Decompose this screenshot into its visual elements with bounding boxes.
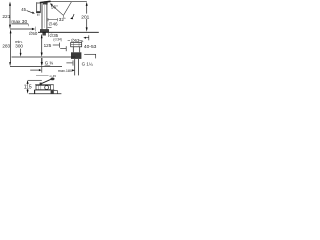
spout vertical left xyxy=(36,2,38,13)
arrow down 201 xyxy=(86,27,88,31)
dim line 201 vertical xyxy=(86,5,88,27)
svg-text:G 1¼: G 1¼ xyxy=(82,62,93,67)
arc arrowhead near 56 xyxy=(50,3,53,6)
lever handle xyxy=(40,1,51,2)
spout arm top xyxy=(37,2,44,4)
deck thickness dim xyxy=(84,37,89,39)
svg-text:56°: 56° xyxy=(51,4,58,9)
rod knob xyxy=(51,78,55,81)
arrow down 115 xyxy=(27,90,29,94)
waste body box xyxy=(36,85,50,89)
125 end tick xyxy=(53,44,60,46)
top extension line xyxy=(44,1,87,3)
body left edge xyxy=(41,4,43,29)
hose vertical dim upper xyxy=(41,35,43,54)
lever lowered diagonal xyxy=(51,4,64,15)
drain mid pipe xyxy=(72,47,74,53)
svg-text:40-53: 40-53 xyxy=(84,44,97,50)
svg-text:G ⅜: G ⅜ xyxy=(45,61,54,66)
max180 right arrow xyxy=(72,69,73,71)
max180 left arrow xyxy=(30,69,39,71)
shank stub below deck xyxy=(42,33,46,36)
lever raised diagonal xyxy=(64,2,72,15)
bottom long line xyxy=(29,93,62,95)
min300 arrow to hose line xyxy=(20,49,22,54)
waste left leg xyxy=(34,90,36,94)
arrow down 221 xyxy=(9,25,11,30)
waste mid line xyxy=(34,89,54,91)
svg-text:300: 300 xyxy=(15,44,23,49)
body inner line xyxy=(44,5,46,28)
arrow up 115 xyxy=(27,80,29,84)
svg-text:125: 125 xyxy=(44,43,52,48)
label hole diameter 35 xyxy=(47,33,49,37)
waste top line xyxy=(35,84,53,86)
svg-text:(∅34): (∅34) xyxy=(53,37,61,41)
flange leader xyxy=(60,48,66,50)
waste right block xyxy=(51,90,54,93)
svg-text:∅50: ∅50 xyxy=(29,31,38,36)
bottom view extension line xyxy=(28,79,42,81)
bottom reference line xyxy=(10,66,62,68)
arrow up 221 xyxy=(9,2,11,6)
water stream ticks xyxy=(36,14,38,16)
dim line 115 xyxy=(27,84,29,91)
svg-text:∅46: ∅46 xyxy=(49,22,59,27)
svg-text:32°: 32° xyxy=(59,17,66,22)
aerator xyxy=(36,11,40,13)
leader 45 arrow xyxy=(27,11,33,13)
waste step xyxy=(54,90,58,92)
basin edge faint xyxy=(35,27,37,32)
swing arc arrow xyxy=(71,14,74,19)
underline right tick xyxy=(28,24,30,26)
pull rod xyxy=(41,79,51,84)
drain tailpipe xyxy=(74,59,76,75)
dim line 221 vertical xyxy=(9,5,11,25)
svg-text:201: 201 xyxy=(81,14,89,20)
deck line right xyxy=(38,31,99,33)
hose level line xyxy=(12,56,76,58)
waste right sidewall xyxy=(53,85,55,90)
svg-text:45: 45 xyxy=(21,7,26,12)
arrow up 201 xyxy=(86,2,88,6)
svg-text:283: 283 xyxy=(2,43,10,48)
base flange xyxy=(40,29,49,32)
rod level line xyxy=(36,74,49,76)
lever cap blob xyxy=(43,2,48,4)
svg-text:max.180: max.180 xyxy=(58,69,72,73)
svg-text:m.45: m.45 xyxy=(50,74,57,78)
dim line 283 vertical lower left xyxy=(10,33,12,63)
drain flange xyxy=(71,43,82,47)
arrow down 283 xyxy=(9,62,11,66)
d46 dim line with end ticks xyxy=(48,19,58,21)
flange edge leader xyxy=(81,41,83,43)
waste ball xyxy=(45,86,49,90)
underline G38 xyxy=(45,64,51,66)
body right edge xyxy=(46,4,48,29)
pipe leader left xyxy=(66,62,72,64)
hose vertical dim lower xyxy=(41,58,43,63)
spout vertical right xyxy=(39,3,41,12)
right L leader xyxy=(84,53,96,55)
drain nut xyxy=(71,52,81,59)
deck bottom line left with right arrow xyxy=(10,28,33,30)
deck top line left xyxy=(11,23,28,25)
tick under d46 xyxy=(48,27,52,29)
apex tick xyxy=(62,16,64,19)
svg-text:115: 115 xyxy=(24,85,32,91)
arrow up 283 xyxy=(10,29,12,33)
svg-text:221: 221 xyxy=(2,14,10,20)
rod base blob xyxy=(40,83,42,85)
